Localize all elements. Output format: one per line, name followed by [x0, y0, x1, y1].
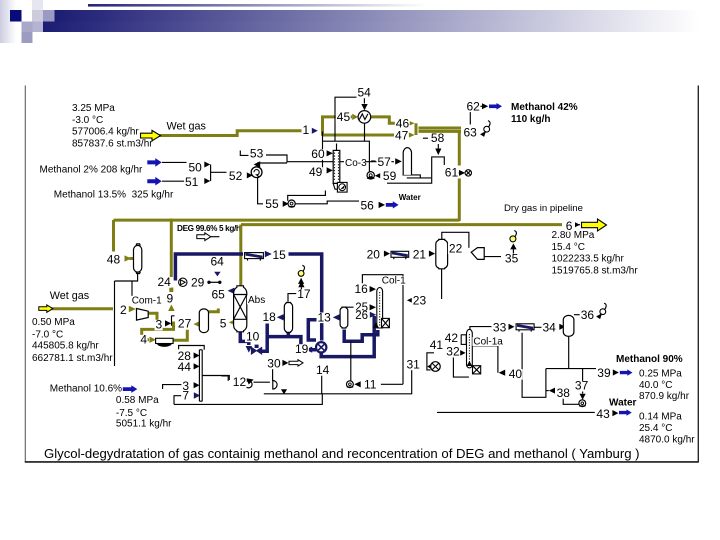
- arrowhead stream18 navy left: [277, 314, 284, 320]
- arrowhead 58 down: [435, 149, 441, 156]
- arrowhead 61 black: [459, 170, 465, 176]
- node 6: [565, 219, 573, 233]
- svg-text:40.0 °C: 40.0 °C: [639, 380, 672, 391]
- node 4: [139, 333, 147, 347]
- svg-text:-7.0 °C: -7.0 °C: [32, 330, 63, 341]
- svg-text:870.9 kg/hr: 870.9 kg/hr: [639, 391, 690, 402]
- arrowhead 44 black: [194, 363, 200, 369]
- fat arrow yellow wet gas bottom: [39, 305, 53, 312]
- wire 62 riser: [469, 110, 471, 124]
- node stream43 annotation: [639, 412, 695, 446]
- arrowhead 3b black: [194, 382, 200, 388]
- wire bottom H2: [174, 394, 322, 405]
- svg-text:3.25 MPa: 3.25 MPa: [72, 103, 115, 114]
- svg-text:22: 22: [449, 241, 463, 255]
- wire vertical olive 63 lower: [458, 179, 461, 222]
- wire vessel59 bottom foot: [403, 175, 432, 178]
- svg-text:40: 40: [509, 367, 523, 381]
- arrowhead stream45 olive: [352, 114, 358, 120]
- frame bottom border: [25, 461, 699, 463]
- wire 38 U shape: [522, 333, 546, 398]
- node stream9 square: [169, 288, 173, 293]
- svg-text:58: 58: [431, 131, 445, 145]
- node 43: [595, 407, 610, 421]
- svg-text:36: 36: [581, 308, 595, 322]
- node 19: [294, 342, 309, 356]
- arrowhead 62 black: [482, 103, 488, 109]
- valve V-61: [465, 170, 471, 176]
- node 58: [430, 131, 445, 145]
- wire compressor22 outlet: [484, 256, 501, 258]
- valve vent35 yellow: [510, 231, 517, 242]
- svg-text:Col-1a: Col-1a: [473, 337, 503, 348]
- svg-text:Com-1: Com-1: [132, 295, 162, 306]
- arrowhead stream9 olive up: [168, 305, 175, 312]
- node 44: [177, 360, 192, 374]
- wire 30 riser: [272, 369, 274, 382]
- svg-text:10: 10: [246, 329, 260, 343]
- column Col-1a: [467, 329, 473, 368]
- node 16: [354, 282, 369, 296]
- node stream39 annotation: [639, 368, 690, 402]
- node 39: [596, 366, 611, 380]
- node methanol42 label: [511, 102, 578, 125]
- arrowhead 17 up: [298, 281, 304, 287]
- svg-text:65: 65: [212, 288, 226, 302]
- svg-text:577006.4 kg/hr: 577006.4 kg/hr: [72, 127, 139, 138]
- node 56: [360, 199, 375, 213]
- wire 35 vent stem: [512, 249, 514, 253]
- node 7: [181, 389, 189, 403]
- arrowhead pump52 top: [254, 161, 261, 167]
- wire com1 outlet: [148, 313, 157, 329]
- svg-text:47: 47: [395, 129, 409, 143]
- wire navy 24 riser to drum64: [175, 254, 243, 281]
- svg-text:59: 59: [383, 169, 397, 183]
- svg-text:2: 2: [120, 303, 127, 317]
- arrowhead stream65 navy left: [228, 288, 235, 294]
- compressor K-22: [471, 248, 484, 260]
- svg-text:38: 38: [557, 386, 571, 400]
- svg-text:445805.8 kg/hr: 445805.8 kg/hr: [32, 341, 99, 352]
- svg-text:110 kg/h: 110 kg/h: [511, 114, 550, 125]
- check valve CV-29: [179, 278, 187, 286]
- node 55: [264, 197, 279, 211]
- svg-text:20: 20: [367, 247, 381, 261]
- arrowhead stream27 olive left: [194, 321, 200, 327]
- arrowhead 3a black: [165, 320, 171, 326]
- wire co3 column stub: [336, 144, 338, 151]
- arrowhead 49 black: [327, 167, 333, 173]
- svg-text:45: 45: [337, 110, 351, 124]
- wire 46-47 double line lower: [419, 130, 462, 133]
- wire vessel22 bottom drop: [441, 269, 443, 299]
- wire 58 stem: [437, 143, 439, 149]
- node 3b: [181, 379, 189, 393]
- wire stream27 black tee: [172, 316, 175, 326]
- wire exchanger45 outlet 46: [371, 117, 407, 123]
- drum HE-20: [391, 251, 409, 259]
- fat arrow navy methanol10.6: [123, 385, 138, 393]
- wire vessel48 bottom bracket: [115, 274, 138, 367]
- svg-text:34: 34: [543, 320, 557, 334]
- wire bottom H1: [264, 370, 412, 394]
- pump P-59: [367, 172, 375, 179]
- svg-text:33: 33: [493, 320, 507, 334]
- vessel V-48: [134, 244, 142, 274]
- svg-text:26: 26: [355, 310, 368, 322]
- arrowhead 60 black: [327, 150, 333, 156]
- svg-text:49: 49: [309, 165, 323, 179]
- svg-text:53: 53: [250, 147, 264, 161]
- node 42: [444, 331, 459, 345]
- wire stream48 stub: [130, 257, 134, 260]
- node 26: [354, 310, 368, 322]
- svg-text:1519765.8 st.m3/hr: 1519765.8 st.m3/hr: [552, 265, 639, 276]
- frame right border: [697, 86, 699, 463]
- wire 60-49 riser: [322, 132, 324, 171]
- arrowhead 50 black: [204, 162, 210, 168]
- svg-text:662781.1 st.m3/hr: 662781.1 st.m3/hr: [32, 353, 113, 364]
- wire exchanger45 to co3: [364, 123, 366, 141]
- node 30: [266, 356, 281, 370]
- wire navy valve10 outlet: [262, 324, 267, 352]
- wire 17 bracket: [288, 294, 297, 302]
- wire 38 stub: [546, 390, 549, 392]
- node 33: [492, 320, 507, 334]
- svg-text:5051.1 kg/hr: 5051.1 kg/hr: [116, 419, 172, 430]
- top banner bar lower: [43, 22, 700, 33]
- drum HE-64: [245, 253, 264, 261]
- fat arrow navy 50: [147, 158, 161, 167]
- wire 59 pump bottom line: [387, 157, 444, 183]
- arrowhead 35 vent up: [510, 243, 516, 249]
- node 58 dash: [423, 137, 428, 139]
- wire lower 47 line under exchanger: [323, 134, 395, 137]
- wire 37 drop: [582, 369, 584, 394]
- node 11: [363, 378, 378, 392]
- svg-text:60: 60: [311, 147, 325, 161]
- arrowhead 52 black: [247, 172, 253, 178]
- node 60: [310, 147, 325, 161]
- wire 36 stub: [574, 314, 580, 316]
- node 52: [228, 169, 243, 183]
- svg-text:11: 11: [364, 378, 377, 392]
- arrowhead H1 junction down: [281, 389, 287, 394]
- arrowhead 32 black: [460, 350, 466, 356]
- wire 51 line: [162, 180, 184, 182]
- vessel V-27: [199, 309, 208, 333]
- node 57: [377, 155, 392, 169]
- wire 7 dash riser: [174, 396, 181, 405]
- light square: [32, 10, 43, 22]
- reboiler col1: [373, 318, 390, 327]
- fat arrow white DEG: [197, 233, 220, 241]
- arrowhead stream5 olive left: [229, 319, 235, 325]
- node 25: [354, 302, 368, 314]
- wire 50 line: [162, 161, 187, 163]
- node 31: [405, 357, 421, 371]
- svg-text:9: 9: [167, 292, 174, 306]
- arrowhead stream15 navy: [265, 251, 272, 257]
- wire navy 13 stub from vessel: [338, 316, 340, 320]
- arrowhead 28 black: [194, 352, 200, 358]
- fat arrow navy 62: [489, 103, 502, 110]
- column Col-1: [377, 288, 383, 329]
- wire DEG main horizontal H1: [114, 219, 460, 222]
- wire 41 bracket: [427, 353, 434, 370]
- node 12 mixer D: [273, 381, 277, 390]
- svg-text:64: 64: [211, 255, 225, 269]
- wire 25 line from vessel: [344, 306, 353, 308]
- svg-text:-3.0 °C: -3.0 °C: [72, 115, 103, 126]
- wire navy drum64 to 15: [289, 254, 322, 341]
- node 12: [232, 375, 247, 389]
- svg-text:Methanol 42%: Methanol 42%: [511, 102, 578, 113]
- arrowhead stream64 navy down: [214, 272, 220, 277]
- svg-text:Glycol-degydratation of gas co: Glycol-degydratation of gas containig me…: [44, 446, 640, 461]
- wire pump55 to 56: [296, 201, 360, 204]
- wire 46-47 junction stub: [415, 123, 418, 135]
- node 59: [382, 169, 397, 183]
- arrowhead 37 down: [580, 394, 586, 400]
- left gradient strip: [0, 0, 16, 43]
- reboiler col1a: [467, 361, 481, 374]
- wire col1 label box: [362, 275, 403, 385]
- compressor Com-1: [137, 309, 149, 321]
- svg-text:57: 57: [378, 155, 392, 169]
- svg-text:15: 15: [273, 248, 287, 262]
- node 1: [302, 123, 310, 137]
- svg-text:39: 39: [597, 366, 611, 380]
- node 38: [556, 386, 571, 400]
- node 12 injection circle: [245, 378, 254, 388]
- valve vent14 yellow: [298, 265, 304, 276]
- svg-text:25.4 °C: 25.4 °C: [639, 423, 672, 434]
- wire drum4 outlet: [173, 330, 187, 341]
- pump P-41: [427, 362, 440, 372]
- arrowhead valve10 in navy down: [246, 346, 252, 353]
- wire vertical olive 63 upper: [458, 131, 461, 165]
- arrowhead stream48 olive: [125, 255, 132, 261]
- node 10: [245, 329, 260, 343]
- column Abs: [234, 286, 247, 332]
- vessel V-22: [436, 239, 448, 268]
- wire 17 arrow stem: [300, 287, 302, 293]
- svg-text:48: 48: [107, 252, 121, 266]
- wire olive band right: [157, 322, 174, 330]
- svg-text:23: 23: [413, 293, 427, 307]
- wire pump52 suction down 55: [258, 178, 263, 204]
- svg-text:3: 3: [156, 318, 163, 332]
- svg-text:63: 63: [464, 126, 478, 140]
- svg-text:19: 19: [295, 342, 309, 356]
- frame left border: [24, 86, 26, 463]
- svg-text:DEG 99.6% 5 kg/h: DEG 99.6% 5 kg/h: [177, 224, 241, 233]
- wire 11 pump feed: [350, 341, 352, 381]
- wire 40 line: [473, 346, 498, 373]
- node 2: [119, 303, 127, 317]
- wire stream18 stub: [283, 316, 285, 320]
- svg-text:52: 52: [229, 169, 243, 183]
- node 14: [315, 363, 330, 377]
- svg-text:61: 61: [445, 165, 459, 179]
- node stream7 annotation: [116, 395, 172, 430]
- arrowhead stream13 navy left: [333, 314, 340, 320]
- square row2 a: [22, 22, 33, 33]
- svg-text:Abs: Abs: [248, 295, 265, 306]
- node 62: [466, 99, 481, 113]
- wire 33 line: [470, 327, 492, 333]
- svg-text:17: 17: [297, 287, 311, 301]
- svg-text:0.14 MPa: 0.14 MPa: [639, 412, 682, 423]
- wire 11 line: [381, 383, 403, 385]
- node 34: [542, 320, 557, 334]
- condenser 42: [461, 335, 466, 345]
- node 61: [444, 165, 459, 179]
- top thin accent line: [88, 4, 488, 7]
- column Co-3 label: [344, 158, 367, 169]
- svg-text:50: 50: [189, 160, 203, 174]
- wire stream1 to exchanger45: [323, 117, 353, 136]
- svg-text:0.25 MPa: 0.25 MPa: [639, 368, 682, 379]
- wire 62 stub: [477, 105, 483, 107]
- wire 61 stub: [452, 172, 460, 174]
- node 24: [157, 275, 172, 289]
- wire 3 bracket: [163, 385, 182, 389]
- arrowhead 11 black left: [354, 381, 360, 387]
- pump co3-bottom box: [337, 182, 347, 192]
- wire co3 bottom pump line: [288, 191, 326, 201]
- fat arrow navy 43: [619, 409, 632, 415]
- pump P-55: [288, 200, 295, 207]
- arrowhead 54 down: [361, 104, 367, 110]
- node 27: [177, 316, 192, 330]
- wire 50-51 bracket to 52: [211, 165, 227, 182]
- svg-text:24: 24: [158, 275, 172, 289]
- wire co3 top bracket: [323, 141, 370, 172]
- svg-text:Methanol 13.5% 325 kg/hr: Methanol 13.5% 325 kg/hr: [54, 189, 174, 200]
- arrowhead stream26 navy: [370, 312, 376, 318]
- node 53: [249, 147, 264, 161]
- node 64: [210, 255, 225, 269]
- arrowhead stream47 olive: [408, 132, 415, 138]
- node 22: [448, 241, 463, 255]
- pump P-52: [251, 167, 262, 178]
- svg-text:43: 43: [596, 407, 610, 421]
- exchanger E-45 circle: [358, 111, 371, 124]
- vessel V-17: [284, 303, 292, 333]
- arrowhead 59 left: [375, 173, 380, 178]
- arrowhead 43 black: [612, 410, 618, 416]
- wire navy exchanger19 bottom to col1: [321, 316, 374, 357]
- arrowhead 56 black: [379, 202, 385, 208]
- svg-text:21: 21: [413, 247, 427, 261]
- svg-text:15.4 °C: 15.4 °C: [552, 242, 585, 253]
- arrowhead stream4 olive: [150, 337, 156, 343]
- svg-text:Dry gas in pipeline: Dry gas in pipeline: [504, 203, 583, 214]
- wire cooler4 feed: [142, 329, 159, 339]
- wire stream65 stub: [234, 289, 236, 293]
- svg-text:16: 16: [355, 282, 369, 296]
- svg-text:18: 18: [263, 310, 277, 324]
- svg-text:1: 1: [303, 123, 310, 137]
- fat arrow white 30: [289, 360, 303, 366]
- node 47: [394, 129, 409, 143]
- node 29: [190, 275, 205, 289]
- arrowhead 20 black: [384, 251, 390, 257]
- arrowhead 25 black: [370, 304, 376, 310]
- fat arrow navy 51: [147, 177, 161, 186]
- fat arrow navy 39: [620, 369, 633, 375]
- wire wet gas 2 line: [52, 307, 114, 310]
- svg-text:Water: Water: [399, 193, 421, 202]
- node stream64 tick: [207, 281, 221, 284]
- arrowhead 23 black left: [407, 297, 413, 303]
- node 20: [366, 247, 381, 261]
- node wet-gas-top annotation: [72, 103, 153, 149]
- arrowhead stream19 navy left: [306, 347, 313, 353]
- svg-text:54: 54: [358, 85, 372, 99]
- pump P-8: [579, 400, 586, 407]
- node 21: [412, 247, 427, 261]
- node 28: [177, 349, 192, 363]
- svg-text:Wet gas: Wet gas: [167, 120, 207, 132]
- node 57 dash: [371, 160, 376, 162]
- node 41: [429, 338, 444, 352]
- wire 54 bracket: [335, 97, 364, 141]
- node 13: [317, 310, 332, 324]
- wire navy 17 bottom line: [267, 337, 316, 350]
- arrowhead 1 small: [312, 128, 318, 134]
- svg-text:2.80 MPa: 2.80 MPa: [552, 230, 595, 241]
- square row3: [22, 32, 33, 43]
- arrowhead stream7 navy right: [194, 392, 200, 398]
- wire 33 drum to 34: [534, 326, 541, 328]
- arrowhead 51 black: [204, 178, 210, 184]
- svg-text:Water: Water: [609, 398, 637, 409]
- svg-text:1022233.5 kg/hr: 1022233.5 kg/hr: [552, 254, 625, 265]
- medium square: [43, 10, 55, 22]
- node 15: [272, 248, 287, 262]
- wire navy vessel17 stem: [287, 332, 291, 337]
- wire vessel22 top to compressor: [442, 232, 469, 247]
- node 40: [508, 367, 523, 381]
- wire 28 bracket: [179, 346, 205, 350]
- exchanger E-19 navy circle: [316, 342, 326, 352]
- svg-text:4870.0 kg/hr: 4870.0 kg/hr: [639, 435, 695, 446]
- node 23: [412, 293, 427, 307]
- wire 6 gap stub: [575, 224, 580, 226]
- svg-text:6: 6: [566, 219, 573, 233]
- fat arrow yellow wet gas top: [141, 130, 161, 140]
- svg-text:4: 4: [140, 333, 147, 347]
- pump P-11: [347, 381, 354, 388]
- arrowhead stream2 olive: [129, 306, 136, 312]
- wire E1 right outlet: [202, 376, 229, 381]
- arrowhead 34 black: [559, 324, 565, 330]
- wire vent14 stem: [300, 279, 302, 284]
- svg-text:0.50 MPa: 0.50 MPa: [32, 317, 75, 328]
- svg-text:14: 14: [316, 363, 330, 377]
- svg-text:Methanol 2% 208 kg/hr: Methanol 2% 208 kg/hr: [40, 164, 144, 175]
- node wet-gas-bottom annotation: [32, 317, 113, 364]
- fat arrow yellow dry gas: [582, 219, 607, 231]
- wire olive vertical stream9: [170, 219, 173, 278]
- arrowhead 6 small: [575, 222, 580, 227]
- arrowhead 57 black: [395, 158, 402, 164]
- compressor Com-1 label: [131, 295, 162, 306]
